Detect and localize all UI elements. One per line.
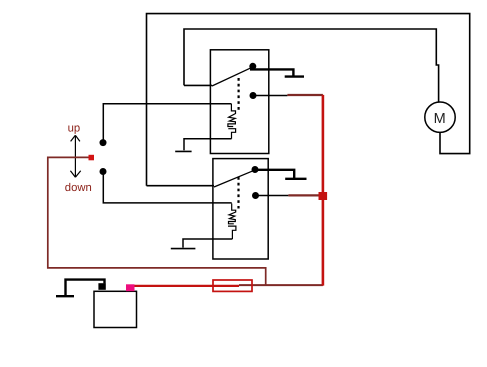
ground bar relay K1 NC bbox=[285, 75, 304, 77]
switch rocker double arrow bbox=[70, 135, 80, 177]
wire switch pole to battery feed (dark red) bbox=[48, 157, 266, 284]
wire fuse to +12V rail (dark red) bbox=[239, 284, 323, 286]
switch up contact bbox=[100, 139, 107, 146]
fuse F1 bbox=[213, 280, 252, 291]
ground bar battery bbox=[56, 295, 74, 297]
switch down contact bbox=[100, 168, 107, 175]
wire relay K1 NO black bbox=[253, 95, 287, 97]
wire relay2 pole feed bbox=[147, 185, 215, 187]
svg-text:M: M bbox=[434, 111, 446, 127]
wire relay K2 NO red segment bbox=[288, 194, 319, 196]
relay K2 box bbox=[213, 159, 268, 259]
relay K1 coil bbox=[228, 104, 236, 139]
node junction red square on +12V rail bbox=[319, 192, 328, 200]
wire relay K1 NO red segment bbox=[287, 94, 323, 96]
relay K1 box bbox=[210, 50, 268, 154]
svg-text:up: up bbox=[68, 123, 81, 135]
relay K1 NC contact bbox=[249, 63, 256, 70]
wire up contact to relay K1 coil bbox=[103, 104, 231, 140]
relay K2 switch arm bbox=[214, 171, 253, 187]
switch pole red square bbox=[89, 155, 95, 161]
ground bar relay K2 NC bbox=[285, 178, 306, 180]
relay K1 plunger dashed link bbox=[238, 78, 240, 112]
wire relay1 pole feed bbox=[184, 84, 212, 86]
relay K2 plunger dashed link bbox=[237, 177, 239, 209]
relay K2 NC contact bbox=[252, 166, 259, 173]
wire relay K2 NO black bbox=[256, 195, 289, 197]
relay K2 NC ground lead bbox=[254, 170, 294, 179]
wire down contact to relay K2 coil bbox=[103, 175, 231, 203]
battery negative terminal bbox=[98, 283, 105, 290]
svg-text:down: down bbox=[65, 182, 92, 194]
battery positive terminal (magenta) bbox=[126, 284, 135, 291]
relay K1 NO contact bbox=[250, 92, 257, 99]
ground bar relay K2 coil bbox=[171, 248, 196, 250]
relay K2 coil bbox=[228, 204, 236, 240]
wire battery + to fuse (bright red) bbox=[134, 285, 239, 287]
wire relay K2 coil to ground bbox=[183, 239, 232, 248]
+12V red rail vertical bbox=[322, 95, 325, 286]
wire outer loop (motor bottom to relay2 pole) bbox=[147, 14, 470, 186]
motor M1 bbox=[425, 102, 455, 132]
relay K1 switch arm bbox=[212, 68, 251, 86]
relay K1 NC ground lead bbox=[250, 69, 293, 76]
battery ground lead bbox=[66, 280, 105, 296]
wire relay K1 coil to ground bbox=[184, 139, 232, 151]
battery BT1 bbox=[94, 291, 137, 327]
ground bar relay K1 coil bbox=[175, 150, 191, 152]
relay K2 NO contact bbox=[252, 192, 259, 199]
wire inner loop (motor top to relay1 pole) bbox=[184, 29, 439, 102]
